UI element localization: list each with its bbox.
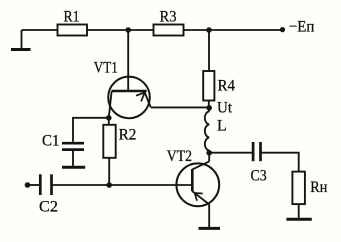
wire (VT1 emitter to Ut node) bbox=[151, 106, 210, 108]
ground (below VT2) bbox=[199, 227, 221, 230]
wire (base lead of VT1) bbox=[127, 30, 129, 90]
node (R3/R4 junction) bbox=[206, 27, 212, 33]
svg-text:C3: C3 bbox=[251, 168, 267, 185]
svg-text:Ut: Ut bbox=[217, 100, 233, 117]
resistor Rн bbox=[292, 172, 327, 218]
inductor L bbox=[205, 108, 227, 153]
ground (below C1) bbox=[62, 166, 85, 169]
wire bbox=[22, 29, 58, 31]
node (input terminal) bbox=[25, 182, 31, 188]
capacitor C3 bbox=[251, 142, 267, 185]
wire bbox=[261, 153, 299, 172]
svg-text:C2: C2 bbox=[39, 199, 58, 216]
node (C1/R2/VT1 collector) bbox=[106, 115, 112, 121]
svg-text:Rн: Rн bbox=[310, 179, 327, 196]
node Еп terminal bbox=[280, 19, 315, 36]
node (L / VT2 collector / C3) bbox=[206, 150, 212, 156]
node (R2 bottom junction) bbox=[106, 182, 112, 188]
svg-text:R4: R4 bbox=[218, 77, 236, 94]
wire (VT2 emitter down) bbox=[208, 204, 210, 227]
capacitor C2 bbox=[39, 174, 58, 215]
wire (to VT2 base) bbox=[52, 184, 192, 186]
wire bbox=[28, 184, 41, 186]
wire bbox=[73, 118, 109, 142]
node (R1/R3 junction, base of VT1) bbox=[125, 27, 131, 33]
svg-text:R1: R1 bbox=[64, 9, 80, 26]
wire bbox=[87, 29, 154, 31]
resistor R1 bbox=[58, 9, 88, 36]
wire bbox=[209, 152, 253, 154]
wire (VT2 collector up) bbox=[208, 153, 210, 162]
resistor R3 bbox=[154, 9, 184, 36]
resistor R2 bbox=[103, 118, 136, 185]
transistor VT2 bbox=[167, 148, 219, 206]
ground (below Rн) bbox=[286, 218, 311, 221]
svg-text:−Еп: −Еп bbox=[289, 19, 315, 36]
svg-text:C1: C1 bbox=[42, 133, 60, 150]
svg-text:L: L bbox=[217, 118, 227, 135]
ground (top left) bbox=[11, 30, 31, 50]
resistor R4 bbox=[203, 30, 235, 108]
svg-text:VT2: VT2 bbox=[167, 148, 192, 165]
svg-text:R3: R3 bbox=[160, 9, 177, 26]
svg-text:VT1: VT1 bbox=[94, 60, 118, 77]
transistor VT1 bbox=[94, 60, 151, 119]
node Ut bbox=[206, 100, 232, 117]
capacitor C1 bbox=[42, 133, 84, 167]
wire bbox=[184, 29, 283, 31]
svg-text:R2: R2 bbox=[119, 127, 137, 144]
